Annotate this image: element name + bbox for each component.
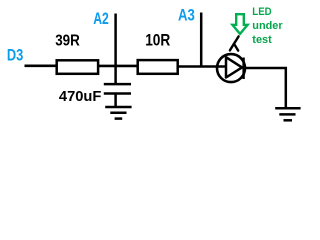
LED D1 [217, 36, 245, 82]
svg-text:10R: 10R [145, 31, 170, 49]
wire [25, 65, 59, 68]
capacitor C1 [104, 84, 131, 93]
annotation text LED under test [252, 6, 282, 46]
ground [105, 107, 131, 119]
annotation arrow [232, 14, 247, 34]
svg-text:D3: D3 [7, 47, 23, 65]
wire [97, 65, 139, 68]
ground [275, 108, 300, 120]
svg-text:39R: 39R [55, 32, 80, 49]
svg-text:A3: A3 [178, 7, 195, 25]
svg-text:test: test [252, 34, 272, 46]
wire [178, 65, 228, 68]
svg-text:A2: A2 [93, 10, 109, 28]
wire [244, 68, 286, 107]
svg-text:LED: LED [252, 6, 272, 18]
wire A3 [200, 13, 203, 68]
svg-text:under: under [252, 20, 282, 32]
resistor R2 [138, 60, 178, 74]
wire A2 [114, 14, 117, 85]
svg-text:470uF: 470uF [59, 88, 102, 105]
resistor R1 [57, 60, 98, 74]
